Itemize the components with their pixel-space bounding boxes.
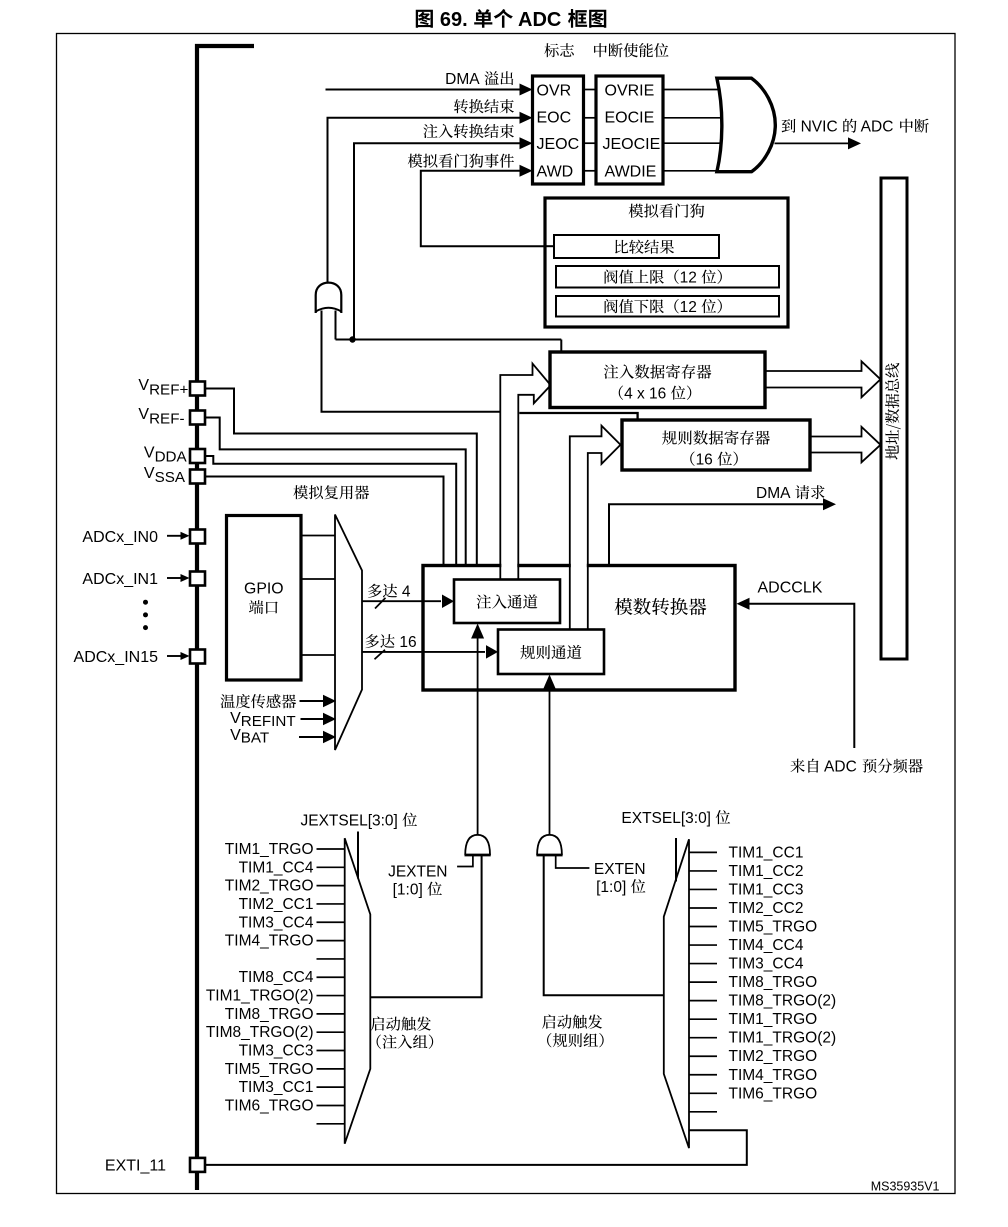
label 比较结果 bbox=[615, 240, 674, 254]
label 注入转换结束 bbox=[423, 124, 514, 138]
regular trigger input TIM1_CC3 bbox=[689, 888, 717, 890]
svg-text:ADCCLK: ADCCLK bbox=[758, 580, 823, 597]
pin VREF+ bbox=[190, 382, 205, 396]
wire stub into injected register top bbox=[560, 340, 562, 354]
junction dot JEOC bbox=[349, 336, 355, 342]
bus slash 多达 16 bbox=[375, 650, 386, 660]
svg-text:BAT: BAT bbox=[241, 729, 269, 746]
pin ADCx_IN15 bbox=[190, 650, 205, 664]
label 温度传感器 bbox=[221, 694, 297, 708]
GPIO ports box bbox=[227, 516, 302, 681]
label 标志 bbox=[544, 43, 574, 57]
label （4 x 16 位） bbox=[619, 386, 623, 400]
svg-text:EXTI_11: EXTI_11 bbox=[105, 1157, 166, 1174]
label 模拟看门狗 bbox=[629, 204, 705, 218]
svg-text:TIM8_CC4: TIM8_CC4 bbox=[239, 969, 314, 986]
EXTEN gate U4 bbox=[537, 835, 562, 855]
wire JEOC to flag bbox=[354, 143, 521, 339]
wire VDDA to ADC bbox=[205, 456, 456, 566]
regular trigger input TIM8_TRGO(2) bbox=[689, 1000, 717, 1002]
regular trigger input TIM2_CC2 bbox=[689, 907, 717, 909]
arrow 温度传感器 to mux bbox=[300, 700, 325, 702]
wire compare result to watchdog edge bbox=[545, 245, 555, 247]
pin VSSA bbox=[190, 470, 205, 484]
block arrow injected register to address/data bus bbox=[765, 361, 881, 379]
label 注入通道 bbox=[477, 594, 538, 608]
wire GPIO to mux 1 bbox=[301, 535, 335, 537]
svg-text:TIM6_TRGO: TIM6_TRGO bbox=[729, 1085, 818, 1102]
regular trigger input (spare) bbox=[689, 1111, 717, 1113]
svg-text:TIM5_TRGO: TIM5_TRGO bbox=[729, 919, 818, 936]
arrowhead to NVIC bbox=[848, 137, 861, 149]
svg-text:AWDIE: AWDIE bbox=[605, 163, 657, 180]
arrowhead into 规则通道 bottom bbox=[543, 675, 556, 690]
svg-text:TIM8_TRGO(2): TIM8_TRGO(2) bbox=[206, 1024, 314, 1041]
svg-text:[1:0]: [1:0] bbox=[596, 879, 630, 896]
wire EOC to flag (from OR gate below) bbox=[328, 118, 522, 284]
svg-text:TIM3_CC4: TIM3_CC4 bbox=[239, 914, 314, 931]
svg-text:TIM3_CC1: TIM3_CC1 bbox=[239, 1079, 314, 1096]
svg-text:TIM6_TRGO: TIM6_TRGO bbox=[225, 1097, 314, 1114]
wire gate left input down and right bbox=[322, 311, 501, 412]
svg-text:V: V bbox=[138, 377, 149, 394]
wire mux to regular channels 多达 16 bbox=[362, 651, 485, 653]
svg-text:TIM1_TRGO(2): TIM1_TRGO(2) bbox=[206, 988, 314, 1005]
pipe regular channels to regular data register bbox=[571, 561, 587, 573]
svg-text:V: V bbox=[144, 444, 155, 461]
compare result box 比较结果 bbox=[554, 235, 719, 258]
regular trigger input TIM1_TRGO(2) bbox=[689, 1037, 717, 1039]
svg-text:TIM2_CC2: TIM2_CC2 bbox=[729, 900, 804, 917]
svg-text:[1:0]: [1:0] bbox=[393, 882, 427, 899]
regular trigger input TIM8_TRGO bbox=[689, 981, 717, 983]
injected trigger input (spare) bbox=[317, 958, 345, 960]
regular trigger input TIM1_TRGO bbox=[689, 1018, 717, 1020]
svg-text:EOC: EOC bbox=[537, 110, 572, 127]
regular trigger input TIM4_TRGO bbox=[689, 1074, 717, 1076]
svg-text:REF+: REF+ bbox=[149, 381, 188, 398]
svg-text:TIM1_CC3: TIM1_CC3 bbox=[729, 881, 804, 898]
svg-text:DMA: DMA bbox=[445, 71, 483, 88]
svg-text:TIM8_TRGO: TIM8_TRGO bbox=[225, 1006, 314, 1023]
low threshold box 阀值下限 bbox=[556, 296, 779, 317]
bus slash 多达 4 bbox=[375, 598, 386, 609]
address/data bus bbox=[881, 178, 907, 659]
svg-text:TIM1_CC1: TIM1_CC1 bbox=[729, 844, 804, 861]
svg-text:TIM2_TRGO: TIM2_TRGO bbox=[225, 878, 314, 895]
svg-text:69.: 69. bbox=[434, 9, 473, 31]
EOC combine gate U2 bbox=[316, 283, 342, 313]
injected data register box bbox=[550, 352, 765, 408]
label 多达 16 bbox=[365, 634, 394, 648]
regular trigger input TIM4_CC4 bbox=[689, 944, 717, 946]
wire flag-enable connector row 2 bbox=[584, 117, 597, 119]
label 转换结束 bbox=[454, 99, 514, 113]
label （16 位） bbox=[690, 452, 694, 466]
wire VREF+ to ADC bbox=[205, 389, 477, 566]
wire JEXTEN elbow bbox=[457, 855, 473, 867]
svg-text:OVRIE: OVRIE bbox=[605, 82, 655, 99]
svg-text:GPIO: GPIO bbox=[244, 581, 284, 598]
arrowhead DMA request bbox=[823, 498, 836, 510]
svg-text:REF-: REF- bbox=[149, 410, 184, 427]
ADC converter box 模数转换器 bbox=[423, 566, 735, 691]
svg-text:DDA: DDA bbox=[155, 448, 188, 465]
svg-text:ADC: ADC bbox=[857, 119, 897, 136]
label 阀值上限（12 位） bbox=[605, 270, 679, 284]
interrupt enable box OVRIE/EOCIE/JEOCIE/AWDIE bbox=[596, 76, 663, 184]
svg-text:TIM3_CC4: TIM3_CC4 bbox=[729, 956, 804, 973]
svg-text:JEOC: JEOC bbox=[537, 136, 580, 153]
JEXTEN gate U3 bbox=[465, 835, 490, 855]
arrow VREFINT to mux bbox=[301, 718, 325, 720]
pin VREF- bbox=[190, 411, 205, 425]
svg-text:AWD: AWD bbox=[537, 163, 574, 180]
svg-text:16: 16 bbox=[395, 634, 417, 651]
analog mux trapezoid bbox=[335, 515, 362, 751]
svg-text:4: 4 bbox=[398, 584, 411, 601]
svg-text:TIM8_TRGO(2): TIM8_TRGO(2) bbox=[729, 993, 837, 1010]
wire JEOC horizontal feed bbox=[336, 339, 562, 341]
svg-text:V: V bbox=[144, 465, 155, 482]
label 注入数据寄存器 bbox=[604, 364, 712, 379]
svg-text:ADCx_IN0: ADCx_IN0 bbox=[82, 529, 158, 546]
svg-text:ADC: ADC bbox=[513, 9, 567, 31]
svg-text:TIM1_TRGO(2): TIM1_TRGO(2) bbox=[729, 1030, 837, 1047]
svg-text:TIM4_TRGO: TIM4_TRGO bbox=[225, 933, 314, 950]
svg-text:EXTSEL[3:0]: EXTSEL[3:0] bbox=[621, 810, 715, 827]
label 地址/数据总线 (rotated) bbox=[885, 363, 901, 460]
regular trigger input TIM2_TRGO bbox=[689, 1055, 717, 1057]
svg-text:TIM4_CC4: TIM4_CC4 bbox=[729, 937, 804, 954]
svg-text:REFINT: REFINT bbox=[241, 713, 296, 730]
arrow VBAT to mux bbox=[299, 736, 324, 738]
wire regular trigger to gate bbox=[544, 855, 664, 995]
arrow ADCx_IN0 bbox=[167, 535, 182, 537]
wire OR gate output to NVIC bbox=[775, 142, 850, 144]
label 到 NVIC 的 ADC 中断 bbox=[782, 119, 796, 133]
pin ADCx_IN1 bbox=[190, 572, 205, 586]
svg-text:ADCx_IN15: ADCx_IN15 bbox=[74, 649, 159, 666]
label 启动触发（规则组） bbox=[542, 1014, 602, 1028]
svg-text:ADCx_IN1: ADCx_IN1 bbox=[82, 571, 158, 588]
arrowhead into OVR bbox=[520, 84, 533, 96]
figure title 图 69. 单个 ADC 框图 bbox=[416, 10, 433, 28]
svg-text:TIM5_TRGO: TIM5_TRGO bbox=[225, 1061, 314, 1078]
svg-text:NVIC: NVIC bbox=[796, 119, 842, 136]
svg-text:TIM4_TRGO: TIM4_TRGO bbox=[729, 1067, 818, 1084]
wire EXTI_11 to regular trigger mux bbox=[205, 1130, 747, 1165]
svg-text:TIM1_TRGO: TIM1_TRGO bbox=[225, 841, 314, 858]
label 端口 bbox=[249, 600, 278, 614]
label 阀值下限（12 位） bbox=[605, 299, 679, 313]
arrow ADCx_IN1 bbox=[167, 577, 182, 579]
svg-text:V: V bbox=[230, 710, 241, 727]
svg-text:OVR: OVR bbox=[537, 82, 572, 99]
svg-text:TIM2_TRGO: TIM2_TRGO bbox=[729, 1048, 818, 1065]
svg-text:JEXTEN: JEXTEN bbox=[388, 864, 447, 881]
label 中断使能位 bbox=[594, 43, 668, 57]
regular trigger input TIM1_CC1 bbox=[689, 851, 717, 853]
arrowhead into injected channels bbox=[442, 594, 454, 608]
svg-text:4 x 16: 4 x 16 bbox=[624, 386, 671, 403]
flags box OVR/EOC/JEOC/AWD bbox=[533, 76, 584, 184]
arrowhead ADCCLK into ADC bbox=[737, 598, 750, 610]
wire gate right input stub bbox=[335, 311, 337, 340]
svg-text:TIM3_CC3: TIM3_CC3 bbox=[239, 1043, 314, 1060]
svg-text:JEOCIE: JEOCIE bbox=[603, 136, 661, 153]
wire OVRIE to OR gate bbox=[663, 89, 722, 91]
label 多达 4 bbox=[368, 584, 397, 598]
pipe injected channels to injected data registers bbox=[501, 561, 517, 573]
high threshold box 阀值上限 bbox=[556, 266, 779, 288]
wire injected trigger to gate bbox=[370, 855, 481, 997]
wire EOCIE to OR gate bbox=[663, 117, 725, 119]
svg-text:MS35935V1: MS35935V1 bbox=[871, 1180, 940, 1194]
label 模拟看门狗事件 bbox=[408, 154, 514, 168]
wire DMA request bbox=[609, 504, 826, 566]
regular trigger input TIM5_TRGO bbox=[689, 926, 717, 928]
svg-text:V: V bbox=[230, 727, 241, 744]
label 模数转换器 bbox=[615, 598, 707, 615]
svg-text:TIM1_TRGO: TIM1_TRGO bbox=[729, 1011, 818, 1028]
wire flag-enable connector row 1 bbox=[584, 89, 597, 91]
pin EXTI_11 bbox=[190, 1158, 205, 1172]
label 启动触发（注入组） bbox=[371, 1016, 431, 1030]
wire JEOCIE to OR gate bbox=[663, 142, 725, 144]
wire gate output to injected channels bbox=[477, 637, 479, 835]
wire AWDIE to OR gate bbox=[663, 170, 722, 172]
svg-text:JEXTSEL[3:0]: JEXTSEL[3:0] bbox=[301, 813, 403, 830]
ellipsis dots bbox=[143, 600, 148, 605]
arrowhead into JEOC bbox=[520, 137, 533, 149]
block arrow regular register to address/data bus bbox=[810, 427, 881, 445]
svg-text:ADC: ADC bbox=[821, 759, 861, 776]
svg-text:SSA: SSA bbox=[155, 469, 186, 486]
label 模拟复用器 bbox=[293, 485, 369, 499]
label 来自 ADC 预分频器 bbox=[790, 759, 818, 773]
svg-text:V: V bbox=[138, 406, 149, 423]
wire EXTSEL control bbox=[675, 838, 677, 882]
wire JEXTSEL control bbox=[357, 832, 359, 879]
wire EXTEN elbow bbox=[556, 855, 590, 868]
wire flag-enable connector row 4 bbox=[584, 170, 597, 172]
regular trigger input TIM6_TRGO bbox=[689, 1092, 717, 1094]
arrowhead into EOC bbox=[520, 112, 533, 124]
arrowhead into AWD bbox=[520, 165, 533, 177]
wire mux to injected channels 多达 4 bbox=[362, 600, 441, 602]
svg-text:16: 16 bbox=[696, 452, 718, 469]
analog watchdog box 模拟看门狗 bbox=[545, 198, 788, 327]
svg-text:TIM1_CC4: TIM1_CC4 bbox=[239, 859, 314, 876]
regular data register box bbox=[622, 420, 810, 470]
wire main vertical rail with top stub bbox=[197, 46, 254, 1190]
injected trigger input (spare) bbox=[317, 1123, 345, 1125]
wire VREF- to ADC bbox=[205, 418, 466, 566]
arrow ADCx_IN15 bbox=[167, 655, 182, 657]
wire flag-enable connector row 3 bbox=[584, 142, 597, 144]
wire gate output to regular channels bbox=[549, 688, 551, 835]
svg-text:DMA: DMA bbox=[756, 485, 794, 502]
wire GPIO to mux 2 bbox=[301, 578, 335, 580]
wire DMA overflow to OVR bbox=[326, 89, 522, 91]
svg-text:12: 12 bbox=[680, 270, 702, 287]
injected trigger mux trapezoid bbox=[345, 838, 371, 1143]
arrowhead into regular channels bbox=[486, 645, 498, 659]
injected channels box 注入通道 bbox=[454, 580, 560, 624]
pin VDDA bbox=[190, 449, 205, 463]
svg-text:12: 12 bbox=[680, 299, 702, 316]
svg-text:TIM8_TRGO: TIM8_TRGO bbox=[729, 974, 818, 991]
svg-text:EOCIE: EOCIE bbox=[605, 110, 655, 127]
wire GPIO to mux 3 bbox=[301, 654, 335, 656]
label 规则数据寄存器 bbox=[662, 430, 770, 445]
regular trigger input TIM3_CC4 bbox=[689, 963, 717, 965]
arrowhead into 注入通道 bottom bbox=[471, 624, 484, 639]
regular channels box 规则通道 bbox=[498, 630, 604, 675]
wire ADCCLK from prescaler bbox=[748, 604, 854, 748]
label 规则通道 bbox=[520, 645, 581, 659]
OR gate U1 (ADC interrupt) bbox=[717, 78, 775, 172]
regular trigger input TIM1_CC2 bbox=[689, 870, 717, 872]
svg-text:TIM2_CC1: TIM2_CC1 bbox=[239, 896, 314, 913]
wire VSSA to ADC bbox=[205, 477, 444, 566]
wire step from injected pipe to regular register top bbox=[519, 413, 637, 420]
wire AWD event from compare result bbox=[421, 171, 545, 246]
svg-text:EXTEN: EXTEN bbox=[594, 861, 646, 878]
svg-text:TIM1_CC2: TIM1_CC2 bbox=[729, 863, 804, 880]
pin ADCx_IN0 bbox=[190, 530, 205, 544]
regular trigger mux trapezoid bbox=[664, 839, 689, 1148]
